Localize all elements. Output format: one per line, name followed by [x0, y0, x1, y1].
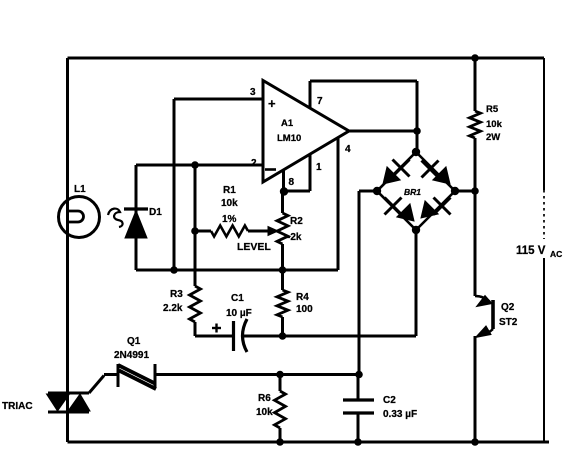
svg-text:115 V: 115 V	[516, 245, 546, 257]
svg-text:4: 4	[345, 144, 351, 155]
svg-text:7: 7	[317, 96, 323, 107]
svg-text:C1: C1	[231, 293, 244, 304]
svg-text:C2: C2	[383, 395, 396, 406]
svg-text:2.2k: 2.2k	[163, 303, 183, 314]
svg-text:R5: R5	[486, 104, 499, 115]
svg-text:+: +	[268, 96, 276, 111]
svg-text:10k: 10k	[486, 119, 503, 130]
svg-text:BR1: BR1	[404, 187, 421, 197]
svg-text:TRIAC: TRIAC	[2, 401, 33, 412]
svg-text:0.33 µF: 0.33 µF	[383, 409, 417, 420]
svg-text:R4: R4	[296, 292, 309, 303]
svg-text:LM10: LM10	[277, 133, 301, 144]
svg-text:3: 3	[250, 87, 256, 98]
svg-text:1: 1	[316, 162, 322, 173]
svg-text:R3: R3	[170, 289, 183, 300]
svg-text:R6: R6	[258, 393, 271, 404]
svg-text:10k: 10k	[256, 407, 273, 418]
svg-text:R2: R2	[290, 216, 303, 227]
svg-text:8: 8	[289, 177, 295, 188]
svg-text:L1: L1	[74, 184, 86, 195]
svg-text:-2k: -2k	[287, 232, 302, 243]
svg-text:100: 100	[296, 304, 313, 315]
svg-text:Q2: Q2	[501, 302, 515, 313]
svg-text:10k: 10k	[221, 198, 238, 209]
svg-text:10 µF: 10 µF	[226, 308, 252, 319]
svg-text:2N4991: 2N4991	[114, 350, 149, 361]
svg-text:1%: 1%	[222, 214, 237, 225]
svg-text:A1: A1	[281, 118, 294, 129]
svg-text:2W: 2W	[486, 132, 500, 143]
svg-text:AC: AC	[550, 249, 562, 259]
svg-text:LEVEL: LEVEL	[237, 241, 271, 253]
svg-text:2: 2	[251, 158, 257, 169]
svg-text:R1: R1	[223, 185, 236, 196]
svg-text:ST2: ST2	[499, 317, 518, 328]
svg-text:D1: D1	[149, 207, 162, 218]
svg-text:Q1: Q1	[127, 336, 141, 347]
